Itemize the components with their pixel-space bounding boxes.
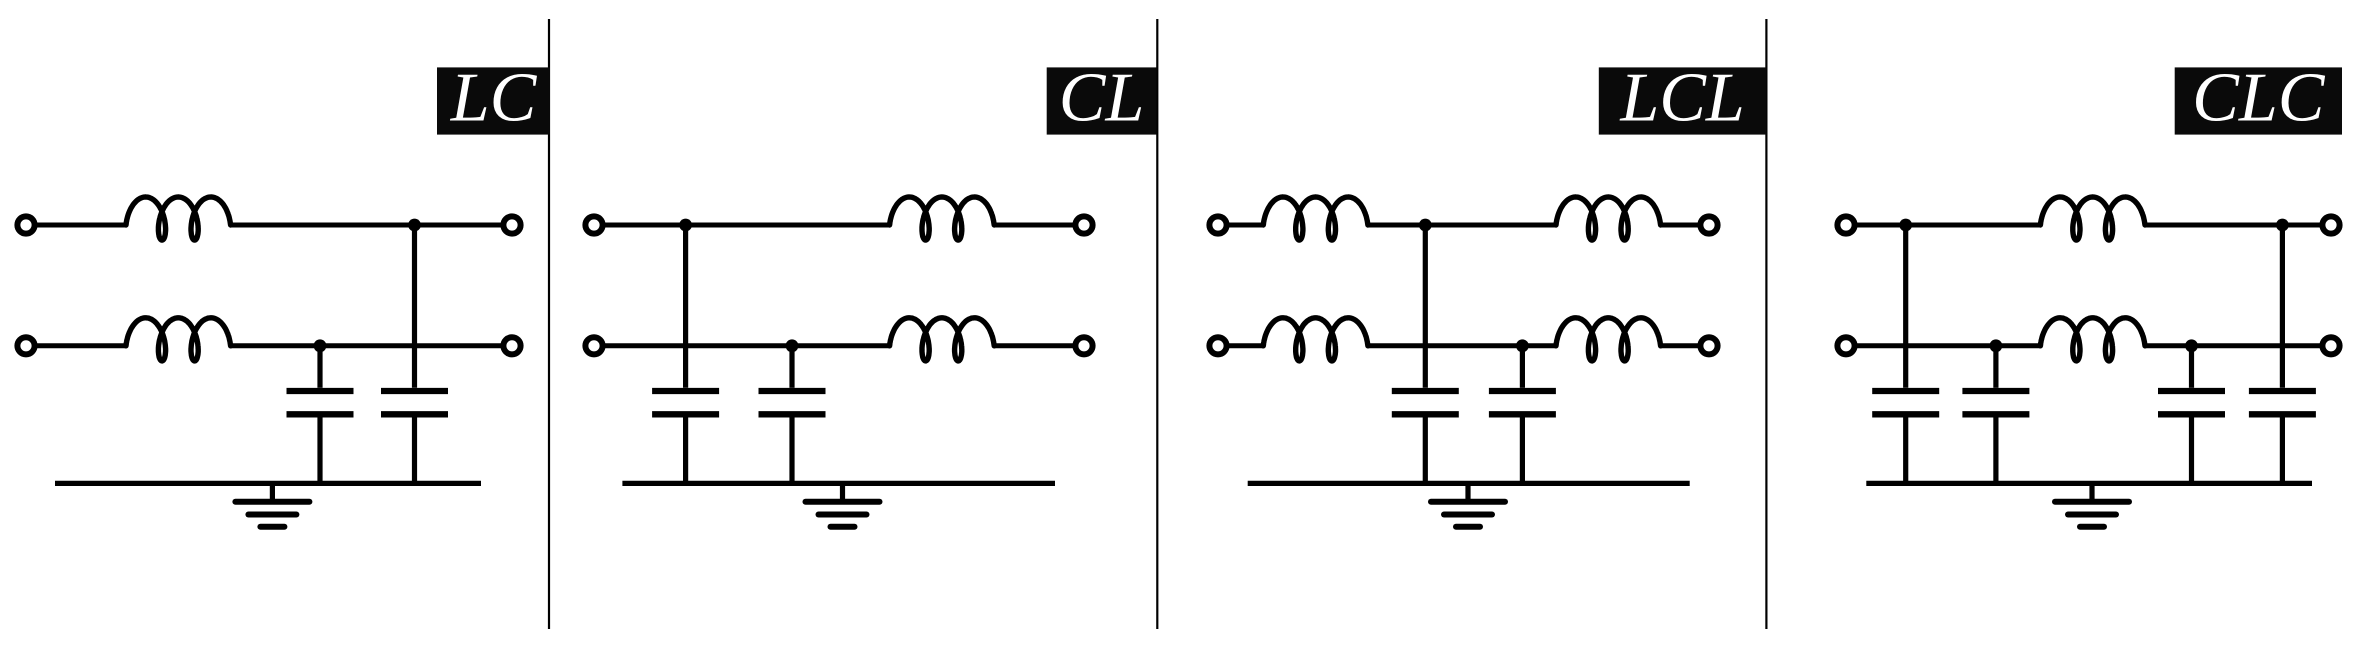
- svg-text:LC: LC: [450, 60, 538, 137]
- svg-text:LCL: LCL: [1619, 60, 1745, 137]
- svg-text:CL: CL: [1059, 60, 1145, 137]
- svg-text:CLC: CLC: [2192, 60, 2326, 137]
